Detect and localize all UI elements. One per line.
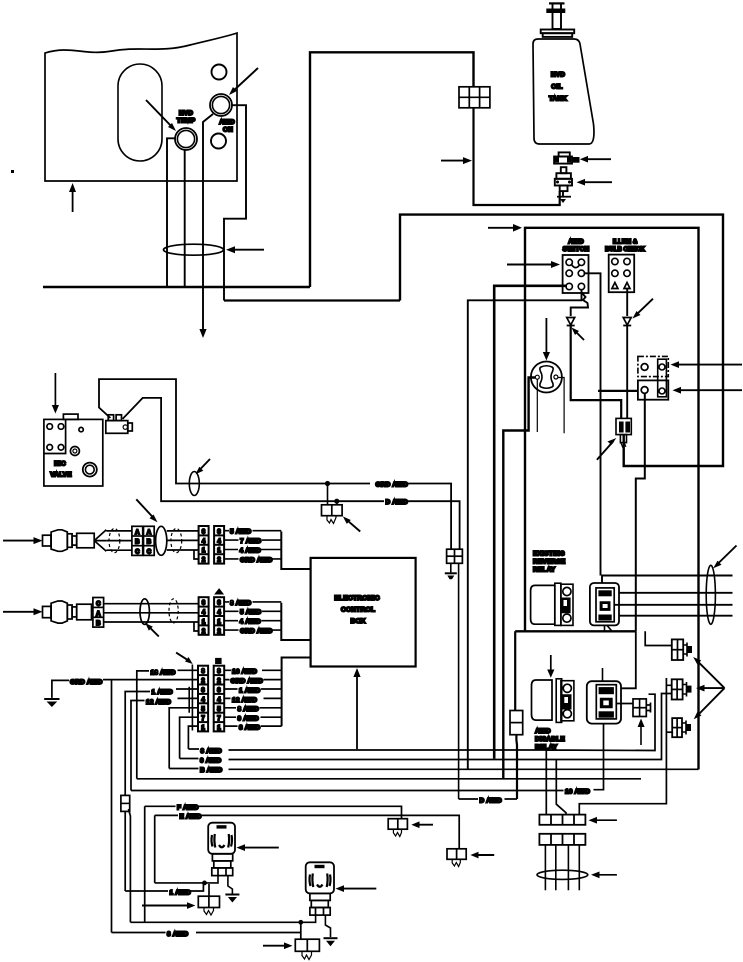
wire: heavy into AWD switch row3 <box>494 286 567 759</box>
pressure switch (round) <box>531 362 562 393</box>
svg-text:16 AWD: 16 AWD <box>232 669 257 676</box>
wire: D AWD long drop to bottom <box>458 563 460 799</box>
HIC VALVE body <box>44 419 103 486</box>
plug PG1 2x2 <box>198 896 219 915</box>
wire: 3 AWD bottom link <box>112 922 301 939</box>
tank neck flange <box>541 30 575 37</box>
upper strip numerals <box>202 529 222 563</box>
svg-text:F AWD: F AWD <box>177 805 199 812</box>
arrow to ILLUM diode <box>633 299 654 319</box>
wire: ILLUM diode down to inline plug <box>626 326 628 419</box>
wire: plug C lower stub <box>666 731 672 733</box>
lower sensor 3 wires <box>104 604 199 631</box>
wire: 1 AWD left through fuse to bottom <box>125 689 198 922</box>
lower CAB letters <box>96 601 101 627</box>
wire: x=635.5 into disable conn <box>621 631 636 688</box>
bottom pin strip pair 8234571 <box>198 666 224 732</box>
tank level sensor connector <box>554 152 579 163</box>
wire: SV2 right lead to ground <box>325 915 330 937</box>
harness ellipse on GRD AWD wire <box>189 472 199 496</box>
wire: pressure switch right pin stub <box>558 378 564 434</box>
tank temp sender <box>555 167 572 191</box>
svg-text:5 AWD: 5 AWD <box>230 529 251 536</box>
ELECTRONIC CONTROL BOX <box>311 558 416 667</box>
wire: 12 AWD left <box>131 698 198 790</box>
svg-text:A: A <box>147 530 152 536</box>
arrow to AWD switch pin A <box>507 261 560 268</box>
wire: loop x=310 up and top run to grid <box>310 52 474 287</box>
svg-text:1 AWD: 1 AWD <box>239 687 260 694</box>
connector plug pair A <box>672 639 692 660</box>
svg-text:9 AWD: 9 AWD <box>200 757 221 764</box>
svg-text:HIC: HIC <box>54 461 66 468</box>
svg-text:AWD: AWD <box>535 728 551 735</box>
wire: SV1 right lead to ground <box>228 876 233 894</box>
connector plug pair C <box>672 718 691 737</box>
connector plug pair B <box>672 679 692 699</box>
wire: 9 AWD long line <box>180 694 672 790</box>
svg-text:HVD: HVD <box>551 72 565 79</box>
lower speed sensor arrow <box>3 608 43 615</box>
upper strip right wires with labels <box>224 531 281 559</box>
svg-text:C: C <box>96 601 101 607</box>
svg-text:1 AWD: 1 AWD <box>152 689 173 696</box>
bottom connector strip half 2 <box>539 834 585 845</box>
svg-text:8 AWD: 8 AWD <box>238 706 259 713</box>
lower strip numerals <box>202 601 222 635</box>
wire: heavy drop x=515 through fuse to D AWD <box>515 631 517 799</box>
upper wires ABC to pin strip <box>167 531 199 559</box>
wire: plug PG1 top lead <box>208 884 210 896</box>
dash-dot existing connector box <box>638 356 668 376</box>
right harness ellipse <box>706 565 715 624</box>
plug PG2 2x2 <box>295 939 319 959</box>
svg-text:B: B <box>96 621 101 627</box>
inline plug PF on F AWD <box>388 819 407 837</box>
V arrows to plugs A B C <box>693 657 724 719</box>
lower strip right wires <box>224 602 281 630</box>
wire: F AWD line <box>145 806 402 922</box>
wire: cell1 to 3AWD <box>188 726 198 749</box>
bottom strip numerals <box>201 669 221 731</box>
wire: relay conn pin3 right run <box>619 615 733 617</box>
arrow to test plug <box>343 516 360 531</box>
arrow to harness ellipse <box>226 246 264 253</box>
up arrow to ECB bottom <box>353 668 360 749</box>
upper ABC cell letters <box>135 530 152 555</box>
wire: new box pin down long drop with jog <box>636 394 645 632</box>
wire: inner loop top <box>525 228 699 770</box>
svg-text:ILLUM &: ILLUM & <box>613 240 638 246</box>
svg-text:5 AWD: 5 AWD <box>240 609 261 616</box>
wire: HVD TEMP bottom lead <box>184 150 186 288</box>
svg-text:18 AWD: 18 AWD <box>151 669 176 676</box>
ILLUM bulb check connector <box>609 255 635 293</box>
lower solid harness ellipse <box>140 599 149 625</box>
arrow to AWD ON lamp <box>229 68 258 95</box>
arrow to strip half 1 <box>589 817 617 824</box>
wire: SV2 left lead to F AWD line <box>130 915 315 922</box>
arrow down to HIC valve <box>52 373 59 414</box>
arrow into inner box top <box>488 224 522 232</box>
wire: outer loop top (AWD ON circuit) <box>400 215 723 466</box>
wire: relay conn top stub to y=575.5 run <box>602 576 733 584</box>
svg-text:8 AWD: 8 AWD <box>230 600 251 607</box>
svg-text:VALVE: VALVE <box>50 472 72 479</box>
junction dot GRD/branch <box>325 481 330 486</box>
wire: ILLUM triangle pin drop <box>626 289 628 316</box>
wire: heavy bus y=287 <box>43 286 310 289</box>
disable relay wired connector <box>587 681 621 723</box>
wire: D AWD bottom line <box>459 798 517 800</box>
wire: heavy bus y=631.3 <box>515 630 636 632</box>
svg-text:12 AWD: 12 AWD <box>146 699 171 706</box>
arrow to upper harness ellipse <box>136 499 157 522</box>
panel hole circle top <box>212 65 227 80</box>
svg-text:SWITCH: SWITCH <box>563 246 590 253</box>
svg-text:9 AWD: 9 AWD <box>238 716 259 723</box>
solenoid valve SV2 body <box>306 862 334 893</box>
wire: plug A feed from bus <box>645 631 672 645</box>
svg-text:ELECTRONIC: ELECTRONIC <box>334 595 379 602</box>
upper solid harness ellipse <box>156 526 167 555</box>
junction dot D/branch <box>334 499 339 504</box>
wire: AWD ON right lead <box>224 105 246 300</box>
svg-text:GRD AWD: GRD AWD <box>240 628 273 635</box>
svg-text:GRD AWD: GRD AWD <box>70 679 103 686</box>
wires below strip half 2 <box>545 845 579 890</box>
strip side verticals <box>189 665 192 731</box>
bottom strip right wires <box>224 670 281 726</box>
arrow to lower harness ellipse <box>145 623 159 636</box>
connector keyway slot <box>658 359 667 397</box>
wire: disable mid pin to plug PD <box>616 703 633 705</box>
wire: 18 AWD left <box>137 670 198 779</box>
svg-text:4 AWD: 4 AWD <box>240 619 261 626</box>
svg-text:EXISTING: EXISTING <box>533 551 565 558</box>
wire: GRD AWD left with ground <box>52 680 198 698</box>
svg-text:1 AWD: 1 AWD <box>170 889 191 896</box>
HVD OIL TANK cap stem <box>546 3 565 29</box>
svg-text:3 AWD: 3 AWD <box>239 725 260 732</box>
wire: B AWD long line <box>169 768 698 771</box>
stray dot <box>11 170 14 173</box>
wire: cell5 stub <box>169 708 198 769</box>
SV1 neck <box>212 854 233 876</box>
wire: y=300.5 run to x=400 <box>224 299 400 301</box>
sender ground <box>557 191 571 203</box>
wire: cell7 to 9AWD <box>180 717 198 758</box>
arrow to switch diode <box>572 328 585 341</box>
panel oval cutout <box>118 64 162 161</box>
upper A B C connector pair <box>132 526 154 555</box>
svg-text:TANK: TANK <box>549 96 567 103</box>
svg-text:AWD: AWD <box>219 119 235 126</box>
SV2 neck <box>310 893 330 915</box>
arrow to dash-dot box pin <box>671 361 743 368</box>
wire: ECB feed y=569 from label bus <box>281 532 310 570</box>
upper speed sensor arrow <box>3 537 43 544</box>
wire: switch pin6 zigzag to diode branch <box>571 293 588 316</box>
wire: vertical x=111.5 <box>111 680 113 932</box>
arrow to right harness ellipse <box>713 546 736 569</box>
existing reverse relay can <box>531 583 573 625</box>
svg-text:DISABLE: DISABLE <box>535 736 565 743</box>
arrow to GRD wire ellipse <box>196 459 211 474</box>
svg-text:10 AWD: 10 AWD <box>565 788 590 795</box>
svg-text:GRD AWD: GRD AWD <box>376 481 409 488</box>
svg-text:RELAY: RELAY <box>535 744 558 751</box>
junction dot SV2 <box>298 920 303 925</box>
solenoid valve SV1 body <box>208 823 235 854</box>
wire: GRD AWD to chassis ground from plug <box>450 563 452 572</box>
svg-text:A: A <box>96 611 101 617</box>
svg-text:3 AWD: 3 AWD <box>201 748 222 755</box>
arrow to inline plug P1 <box>597 438 616 460</box>
wire: 12AWD long line y=779 <box>137 778 641 780</box>
svg-text:C: C <box>147 549 152 555</box>
new connector box below <box>638 380 668 399</box>
arrow to level sensor <box>580 156 611 163</box>
tank body <box>533 39 594 144</box>
upper pin strip pair 3412 <box>199 526 225 564</box>
reverse relay wired connector <box>590 583 619 625</box>
HIC valve top tab <box>63 414 78 419</box>
wire: pressure switch left pin stub <box>536 380 538 433</box>
arrow to SV2 <box>336 885 377 892</box>
wire: switch mid-right pin to long drop x=600 <box>584 273 601 575</box>
wire: valve connector to GRD AWD run <box>99 379 451 549</box>
junction dot SV1 <box>202 881 207 886</box>
solid triangle above lower strip <box>214 588 224 594</box>
wire: plug P1 bottom to outer loop <box>623 447 625 466</box>
lower C A B connector strip <box>93 598 104 628</box>
svg-text:3 AWD: 3 AWD <box>167 931 188 938</box>
svg-text:OIL: OIL <box>551 84 562 91</box>
svg-text:RELAY: RELAY <box>533 567 556 574</box>
svg-text:7 AWD: 7 AWD <box>240 538 261 545</box>
chassis ground symbol <box>445 573 457 579</box>
svg-text:GRD AWD: GRD AWD <box>240 557 273 564</box>
inline connector plug P1 <box>616 418 631 446</box>
AWD ON indicator lamp <box>210 94 232 116</box>
wire: jog into strip cell3 <box>556 790 566 815</box>
wire: HVD TEMP left lead <box>167 138 176 287</box>
wire: AWD ON bottom lead with down arrow <box>199 114 213 338</box>
wire: disable conn top feed <box>602 668 604 681</box>
upper dashed harness ellipse left <box>109 529 120 553</box>
wire: diode down then right to inline plug <box>571 326 622 419</box>
ground symbol GRD AWD <box>44 699 59 707</box>
wire: relay conn pin2 right run <box>615 604 733 606</box>
GRD/D inline plug 2x2 <box>447 549 463 563</box>
wire: 18AWD/10AWD long line y=790 <box>131 724 604 791</box>
bottom harness ellipse <box>537 870 588 879</box>
svg-text:B AWD: B AWD <box>200 767 223 774</box>
wire: valve connector 2 to D AWD run <box>123 398 460 549</box>
AWD switch connector <box>563 255 589 293</box>
arrow to plug PG1 <box>142 902 195 909</box>
upper dashed harness ellipse right <box>171 529 182 553</box>
svg-text:CONTROL: CONTROL <box>341 607 375 614</box>
upper sensor 3 wires to ABC <box>106 531 132 550</box>
up arrow to plug PD <box>638 719 645 746</box>
wire: plug B upper stub <box>579 678 671 815</box>
svg-text:REVERSE: REVERSE <box>533 559 566 566</box>
panel hole circle bottom <box>211 134 226 149</box>
svg-text:TEMP: TEMP <box>177 118 196 125</box>
wire: ECB feed y=657.5 from bottom strip bus <box>282 658 311 727</box>
instrument panel outline <box>45 33 237 181</box>
inline fuse F1 <box>121 795 130 811</box>
plug PD 2-cell <box>633 699 651 717</box>
bottom connector strip half 1 <box>539 815 585 825</box>
harness ellipse on panel wires <box>164 244 224 255</box>
wire: heavy from pressure switch left pin to lower bus <box>503 378 535 780</box>
arrow down to pressure switch <box>543 318 550 361</box>
svg-text:E AWD: E AWD <box>180 814 202 821</box>
svg-text:D AWD: D AWD <box>386 499 409 506</box>
arrow to plug PG2 <box>263 942 293 949</box>
inline fuse F2 <box>510 711 523 735</box>
svg-text:BOX: BOX <box>350 618 365 625</box>
arrow to bottom strip top <box>176 653 193 664</box>
upper sensor wire fan <box>94 530 106 552</box>
arrow to plug PE <box>470 852 494 859</box>
wire: SV1 left lead to E AWD <box>155 876 218 883</box>
svg-text:A: A <box>135 530 140 536</box>
arrow to SV1 <box>236 844 278 851</box>
arrow down to AWD disable relay <box>547 655 554 678</box>
arrow to plug PF <box>411 821 433 828</box>
arrow to new box pin <box>673 387 743 394</box>
wire: relay conn pin1 right run <box>619 592 733 594</box>
svg-text:B: B <box>135 540 140 546</box>
diode symbol on ILLUM branch <box>623 318 631 326</box>
svg-text:B: B <box>147 540 152 546</box>
HVD TEMP indicator lamp <box>175 128 197 150</box>
arrow to grid wire <box>441 157 472 164</box>
wire: 3 AWD long line <box>188 694 655 814</box>
wire: branch drops to test plug <box>328 484 337 505</box>
svg-text:ON: ON <box>223 127 233 134</box>
SV2 ground <box>324 938 338 946</box>
wire: grid block down to tank sender <box>474 108 560 205</box>
connector grid block 3x2 <box>459 87 490 108</box>
arrow to HVD TEMP lamp <box>146 100 176 131</box>
solid square above bottom strip <box>215 658 222 664</box>
test plug 2x2 <box>322 505 343 524</box>
upper speed sensor body <box>43 530 95 552</box>
svg-text:12 AWD: 12 AWD <box>232 697 257 704</box>
wire: relay conn bottom lead to heavy bus <box>605 625 613 631</box>
arrow to temp sender <box>577 179 613 186</box>
AWD disable relay can <box>532 679 574 723</box>
SV1 ground <box>225 895 239 903</box>
svg-text:C: C <box>135 549 140 555</box>
diode symbol on switch branch <box>567 318 575 326</box>
lower speed sensor body <box>43 601 92 623</box>
lower dashed harness ellipse <box>169 599 178 623</box>
svg-text:D AWD: D AWD <box>480 798 503 805</box>
arrow to bottom harness ellipse <box>591 872 617 879</box>
svg-text:HVD: HVD <box>179 110 193 117</box>
up arrow below panel <box>69 183 76 212</box>
HIC valve solenoid connector <box>106 415 133 434</box>
wire: E AWD line <box>155 815 460 883</box>
svg-text:BULB CHECK: BULB CHECK <box>605 247 645 253</box>
lower pin strip pair 3412 <box>199 597 225 635</box>
wire: switch pin6 drop to y=300.5 run <box>468 290 582 769</box>
wire: ECB feed y=640 from lower label bus <box>281 603 310 640</box>
svg-text:AWD: AWD <box>568 239 584 246</box>
svg-text:GRD AWD: GRD AWD <box>231 678 264 685</box>
svg-text:4 AWD: 4 AWD <box>240 547 261 554</box>
wire: 1 AWD bottom link <box>125 883 203 891</box>
inline plug PE on E AWD <box>447 849 466 867</box>
wire: heavy into new box left <box>598 390 638 392</box>
